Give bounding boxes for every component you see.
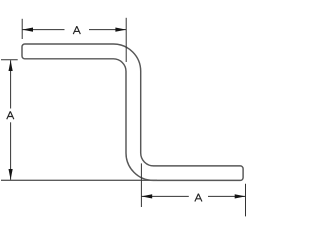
wire (left dimension line, gap for label) bbox=[10, 60, 12, 108]
wire (left dim top extension tick) bbox=[1, 59, 18, 61]
wire (top dim left extension line) bbox=[21, 19, 23, 39]
node A (top dim right arrowhead) bbox=[115, 28, 126, 32]
wire (bottom dim right extension line) bbox=[245, 184, 247, 217]
node A (bottom dimension label) bbox=[195, 194, 202, 202]
node A (left dim top arrowhead) bbox=[9, 60, 13, 71]
node A (left dimension label) bbox=[7, 111, 14, 119]
wire bbox=[0, 0, 250, 250]
wire (top dim right extension line) bbox=[125, 18, 127, 62]
node A (Z-bar part outline) bbox=[22, 44, 243, 180]
wire (top dimension line, gap for label) bbox=[22, 29, 64, 31]
node A (left dim bottom arrowhead) bbox=[9, 169, 13, 180]
node A (bottom dim left arrowhead) bbox=[141, 194, 152, 198]
wire (bottom extension line, gray, collinear with part bottom edge) bbox=[1, 179, 157, 181]
node A (bottom dim right arrowhead) bbox=[235, 194, 246, 198]
wire (bottom dim left extension line) bbox=[140, 163, 142, 207]
node A (top dim left arrowhead) bbox=[22, 28, 33, 32]
node A (top dimension label) bbox=[73, 26, 80, 34]
wire (bottom dimension line, gap for label) bbox=[141, 195, 188, 197]
